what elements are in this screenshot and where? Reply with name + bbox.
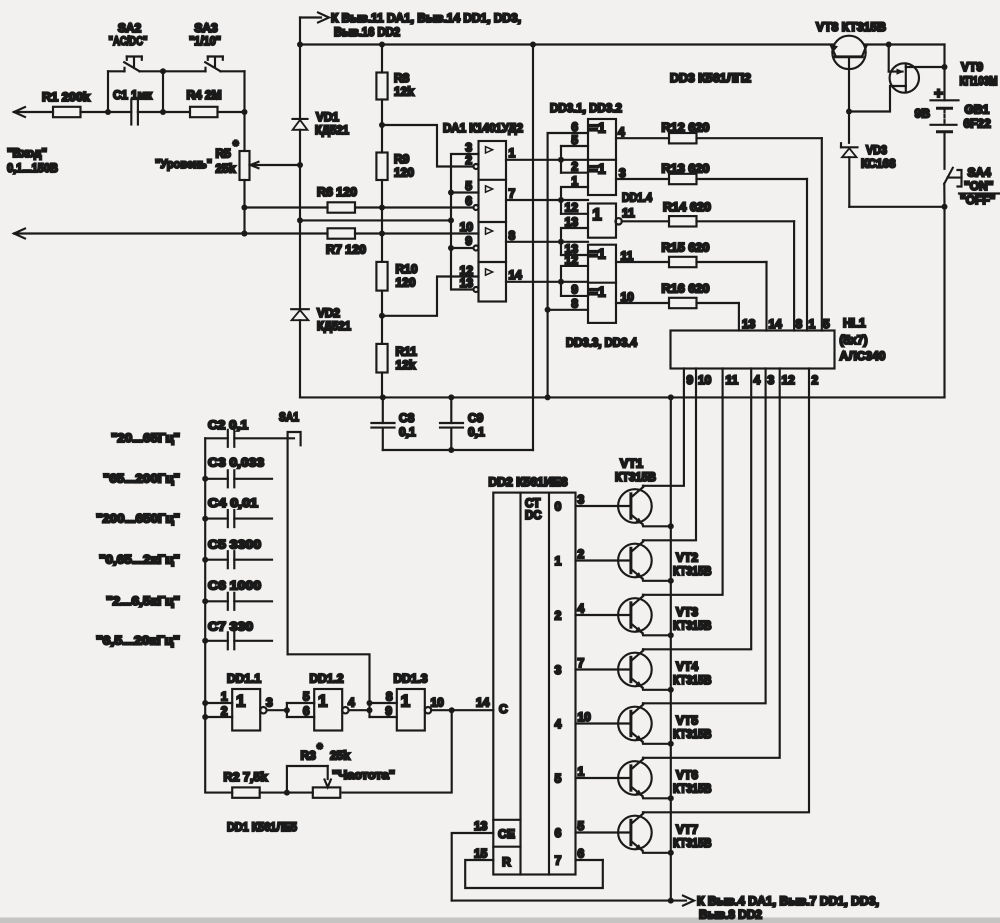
svg-text:C4 0,01: C4 0,01 xyxy=(208,496,258,510)
svg-text:R1 200k: R1 200k xyxy=(42,90,90,104)
svg-text:0: 0 xyxy=(555,500,562,514)
svg-text:R5: R5 xyxy=(216,147,232,161)
DD1.4 inputs 12 13 xyxy=(561,200,588,242)
svg-text:DD3.3, DD3.4: DD3.3, DD3.4 xyxy=(566,336,637,350)
svg-text:DD2 К561ИЕ8: DD2 К561ИЕ8 xyxy=(489,475,568,489)
wire R6 to DA1 pin6 xyxy=(355,205,473,211)
wire bottom ground rail xyxy=(452,900,672,902)
svg-text:"1/10": "1/10" xyxy=(189,34,221,48)
svg-text:0,1: 0,1 xyxy=(468,425,485,439)
svg-text:DC: DC xyxy=(525,510,542,522)
logic gate DD1.4 inverter xyxy=(588,191,652,238)
svg-text:VT9: VT9 xyxy=(961,60,983,74)
wire top left riser xyxy=(299,18,301,119)
DD1.1 output 3 wire xyxy=(266,696,290,714)
svg-text:C: C xyxy=(499,702,508,716)
transistor VT4 КТ315В xyxy=(576,649,712,693)
svg-text:1: 1 xyxy=(401,692,410,711)
wire emitter rail to ground xyxy=(668,397,674,903)
wire R8 R9 node xyxy=(379,100,385,153)
svg-text:0,1: 0,1 xyxy=(399,425,416,439)
transistor VT8 КТ315В xyxy=(816,20,886,112)
svg-text:13: 13 xyxy=(742,317,756,331)
resistor R15 xyxy=(616,241,767,331)
svg-text:6: 6 xyxy=(465,194,472,208)
wire bus to R2 xyxy=(205,717,232,793)
svg-text:10: 10 xyxy=(460,220,474,234)
svg-text:КД521: КД521 xyxy=(315,123,349,137)
svg-text:25k: 25k xyxy=(216,162,236,176)
svg-text:5: 5 xyxy=(571,133,578,147)
node frequency label 1 xyxy=(111,431,180,445)
wire HL1 pin column to VT5 collector xyxy=(643,369,766,704)
DD1.2 output 4 wire xyxy=(348,696,373,714)
svg-text:3: 3 xyxy=(619,166,626,180)
svg-text:4: 4 xyxy=(618,125,625,139)
svg-text:"20...65Гц": "20...65Гц" xyxy=(111,431,180,445)
svg-text:6: 6 xyxy=(571,120,578,134)
svg-text:C6 1000: C6 1000 xyxy=(208,579,261,593)
wire HL1 pin column to VT4 collector xyxy=(643,369,751,650)
svg-text:C5 3300: C5 3300 xyxy=(208,538,261,552)
svg-text:(5x7): (5x7) xyxy=(840,333,868,347)
wire R9 to R6 line xyxy=(381,180,383,208)
switch SA1 xyxy=(279,410,301,654)
svg-text:5: 5 xyxy=(823,317,830,331)
svg-text:"Частота": "Частота" xyxy=(332,768,395,782)
switch SA3 xyxy=(163,21,245,112)
DD3.3 output 11 xyxy=(621,249,634,263)
svg-text:C1 1мк: C1 1мк xyxy=(113,88,153,102)
svg-text:3: 3 xyxy=(768,373,775,387)
svg-text:12: 12 xyxy=(782,373,796,387)
svg-text:КТ315В: КТ315В xyxy=(673,564,712,578)
switch SA2 xyxy=(108,21,166,112)
resistor R8 xyxy=(376,45,414,100)
svg-text:13: 13 xyxy=(474,819,488,833)
svg-text:КД521: КД521 xyxy=(317,319,351,333)
svg-text:GB1: GB1 xyxy=(965,103,990,117)
svg-text:9: 9 xyxy=(465,234,472,248)
DD3.4 inputs 9 8 xyxy=(548,282,588,311)
resistor R4 xyxy=(187,88,222,117)
svg-text:5: 5 xyxy=(555,772,562,786)
svg-text:2: 2 xyxy=(812,373,819,387)
svg-text:"OFF": "OFF" xyxy=(960,193,995,207)
wire R7 to DA1 pin10 xyxy=(355,231,479,237)
svg-text:R13 620: R13 620 xyxy=(662,162,710,176)
node К Выв.4 arrow xyxy=(672,894,879,922)
svg-text:*: * xyxy=(233,137,239,153)
svg-text:C3 0,033: C3 0,033 xyxy=(208,456,264,470)
svg-text:10: 10 xyxy=(578,710,592,724)
transistor VT5 КТ315В xyxy=(576,703,712,747)
svg-text:"Вход": "Вход" xyxy=(7,146,47,160)
wire right rail from bus xyxy=(942,45,948,101)
svg-text:2: 2 xyxy=(571,160,578,174)
wire right rail to frame xyxy=(943,207,945,398)
resistor R6 xyxy=(317,185,357,213)
svg-text:3: 3 xyxy=(555,663,562,677)
svg-text:10: 10 xyxy=(621,290,635,304)
wire mid frame rail xyxy=(300,394,945,400)
transistor VT1 КТ315В xyxy=(576,457,674,530)
display HL1 АЛС340 xyxy=(671,316,886,369)
wire C1 to node xyxy=(138,109,190,115)
wire HL1 pin column to VT6 collector xyxy=(643,369,780,758)
DD2 output pin numbers 3 2 4 7 10 1 5 6 xyxy=(578,493,592,861)
svg-text:R6 120: R6 120 xyxy=(317,185,357,199)
wire VD2 riser xyxy=(299,220,301,309)
wire DA1 out7 xyxy=(506,197,588,203)
DD2 CE pin 13 wire to ground rail xyxy=(452,819,494,901)
DD3.3 inputs 13 12 xyxy=(561,242,588,282)
wire R2 to R3 xyxy=(260,790,313,796)
DD2 C input label xyxy=(499,702,508,716)
svg-text:7: 7 xyxy=(509,187,516,201)
svg-text:"0,65...2кГц": "0,65...2кГц" xyxy=(99,553,180,567)
battery GB1 6F22 xyxy=(915,85,992,132)
svg-text:2: 2 xyxy=(221,704,228,718)
capacitor C7 xyxy=(205,620,272,650)
transistor VT3 КТ315В xyxy=(576,595,712,639)
svg-text:DD1.3: DD1.3 xyxy=(394,672,428,686)
resistor R2 xyxy=(224,770,268,798)
svg-text:10: 10 xyxy=(698,373,712,387)
wire R3 to DD1.3 output xyxy=(343,710,452,792)
svg-text:8: 8 xyxy=(509,229,516,243)
svg-text:=1: =1 xyxy=(590,120,606,136)
svg-text:HL1: HL1 xyxy=(843,316,866,330)
logic gate DD1.3 inverter xyxy=(394,672,432,731)
DA1 output pin labels xyxy=(509,146,523,282)
DD2 C input wire pin 14 xyxy=(452,696,494,711)
wire capacitor bank bus xyxy=(202,438,208,720)
wire divider to DA1 pin2 xyxy=(382,125,473,167)
DD3.1 output 4 / resistor R12 xyxy=(618,125,625,139)
svg-text:"AC/DC": "AC/DC" xyxy=(109,34,148,48)
svg-text:DD1.2: DD1.2 xyxy=(310,672,344,686)
svg-text:5: 5 xyxy=(578,819,585,833)
resistor R7 xyxy=(326,228,366,256)
svg-text:R9: R9 xyxy=(394,152,410,166)
node frequency label 2 xyxy=(103,472,180,486)
wire VD3 to SA4 node xyxy=(849,204,947,210)
HL1 top pin labels 13 14 8 1 5 xyxy=(742,317,830,331)
DA1 pin number labels left xyxy=(460,141,474,291)
DD3.2 output 3 / resistor R13 xyxy=(619,166,626,180)
svg-text:R8: R8 xyxy=(394,71,410,85)
svg-text:КП103М: КП103М xyxy=(960,74,998,88)
svg-text:C7 330: C7 330 xyxy=(208,620,253,634)
capacitor C5 xyxy=(205,538,272,569)
svg-text:"2...6,5кГц": "2...6,5кГц" xyxy=(106,594,180,608)
svg-text:DD3.1, DD3.2: DD3.1, DD3.2 xyxy=(550,101,622,115)
svg-text:КТ315В: КТ315В xyxy=(673,619,712,633)
diode VD2 xyxy=(291,306,351,397)
svg-text:11: 11 xyxy=(622,206,635,220)
wire HL1 pin column to VT2 collector xyxy=(643,369,696,541)
svg-text:1: 1 xyxy=(809,317,816,331)
svg-text:SA4: SA4 xyxy=(968,166,992,180)
HL1 bottom pin labels 9 10 11 4 3 12 2 xyxy=(687,373,819,387)
wire DD3 common rail xyxy=(545,133,588,400)
svg-text:R10: R10 xyxy=(396,262,418,276)
DD2 R pin 15 label xyxy=(474,847,488,861)
capacitor C9 xyxy=(440,397,485,453)
node Вход label xyxy=(7,146,58,175)
DD2 output wires to bases xyxy=(576,859,603,861)
resistor R11 xyxy=(376,316,417,398)
node input arrow top xyxy=(14,107,53,117)
svg-text:6: 6 xyxy=(555,826,562,840)
diode VD1 xyxy=(293,110,350,165)
svg-text:9: 9 xyxy=(687,373,694,387)
wire DA1 out14 xyxy=(506,279,588,285)
svg-text:VT1: VT1 xyxy=(620,457,643,471)
svg-text:DD1 К561ЛЕ5: DD1 К561ЛЕ5 xyxy=(227,820,297,834)
wire top supply bus xyxy=(297,42,834,48)
wire R10 to pin12 xyxy=(379,277,479,319)
svg-text:6: 6 xyxy=(578,847,585,861)
svg-text:*: * xyxy=(317,740,323,756)
wire R6 sense line xyxy=(244,206,327,208)
counter DD2 К561ИЕ8 xyxy=(489,475,576,875)
potentiometer R5 xyxy=(155,112,300,237)
svg-text:VT3: VT3 xyxy=(676,605,698,619)
node input arrow bottom xyxy=(14,229,328,239)
svg-text:1: 1 xyxy=(318,692,327,711)
svg-text:6F22: 6F22 xyxy=(964,117,992,131)
node frequency label 4 xyxy=(99,553,180,567)
wire R6R7 link xyxy=(381,208,383,234)
svg-text:4: 4 xyxy=(578,602,585,616)
svg-text:2: 2 xyxy=(555,609,562,623)
svg-text:4: 4 xyxy=(754,373,761,387)
svg-text:=1: =1 xyxy=(590,161,606,177)
wire R1 to C1 node xyxy=(81,109,132,115)
wire HL1 pin column to VT7 collector xyxy=(643,369,809,813)
node frequency label 6 xyxy=(96,634,180,648)
svg-text:6: 6 xyxy=(303,704,310,718)
transistor VT2 КТ315В xyxy=(576,540,712,584)
svg-text:1: 1 xyxy=(221,690,228,704)
resistor R16 xyxy=(616,282,739,331)
DD1.3 output 10 wire xyxy=(431,696,455,714)
svg-text:15: 15 xyxy=(474,847,488,861)
svg-text:5: 5 xyxy=(303,690,310,704)
svg-text:Выв.8 DD2: Выв.8 DD2 xyxy=(699,908,762,922)
svg-text:КС168: КС168 xyxy=(861,157,896,171)
transistor VT9 КП103М xyxy=(849,45,998,112)
capacitor C6 xyxy=(205,579,272,610)
svg-text:VT8 КТ315В: VT8 КТ315В xyxy=(816,20,886,34)
resistor R1 xyxy=(42,90,90,117)
transistor VT6 КТ315В xyxy=(576,758,712,802)
capacitor C8 xyxy=(371,397,416,450)
DD2 R box xyxy=(502,855,511,869)
resistor R10 xyxy=(376,234,417,291)
svg-text:5: 5 xyxy=(465,179,472,193)
svg-text:1: 1 xyxy=(592,205,601,224)
svg-text:R: R xyxy=(502,855,511,869)
wire DA1 out1 xyxy=(506,157,588,163)
potentiometer R3 Частота xyxy=(287,740,395,798)
DD3.4 output 10 xyxy=(621,290,635,304)
svg-text:DD1.1: DD1.1 xyxy=(227,672,261,686)
switch SA4 ON OFF xyxy=(944,132,999,207)
svg-text:120: 120 xyxy=(394,166,414,180)
DD3.2 inputs 2 1 xyxy=(561,160,588,201)
svg-text:К Выв.11 DA1, Выв.14 DD1, DD3,: К Выв.11 DA1, Выв.14 DD1, DD3, xyxy=(331,11,521,25)
wire R5 wiper node xyxy=(297,162,303,220)
svg-text:4: 4 xyxy=(555,717,562,731)
svg-text:11: 11 xyxy=(621,249,634,263)
svg-text:11: 11 xyxy=(726,373,739,387)
svg-text:1: 1 xyxy=(555,554,562,568)
svg-text:13: 13 xyxy=(460,276,474,290)
svg-text:4: 4 xyxy=(348,696,355,710)
logic gate DD1.2 inverter xyxy=(310,672,349,731)
svg-text:CE: CE xyxy=(498,827,515,841)
wire bus VT8 to VT9 node xyxy=(865,42,945,48)
svg-text:8: 8 xyxy=(571,297,578,311)
svg-text:3: 3 xyxy=(266,696,273,710)
svg-text:0,1...150В: 0,1...150В xyxy=(7,161,58,175)
svg-text:1: 1 xyxy=(509,146,516,160)
svg-text:R12 620: R12 620 xyxy=(662,121,710,135)
svg-text:DA1 К1401УД2: DA1 К1401УД2 xyxy=(443,121,523,135)
svg-text:1: 1 xyxy=(571,174,578,188)
svg-text:VT7: VT7 xyxy=(676,823,698,837)
op-amp DA1 К1401УД2 xyxy=(443,121,523,302)
svg-text:VD2: VD2 xyxy=(317,306,340,320)
svg-text:R16 620: R16 620 xyxy=(662,282,710,296)
svg-text:К Выв.4 DA1, Выв.7 DD1, DD3,: К Выв.4 DA1, Выв.7 DD1, DD3, xyxy=(697,894,879,908)
label DD1 К561ЛЕ5 xyxy=(227,820,297,834)
svg-text:14: 14 xyxy=(509,268,523,282)
svg-text:АЛС340: АЛС340 xyxy=(840,349,886,363)
DD1.4 output 11 xyxy=(622,206,635,220)
wire mid reference line xyxy=(297,217,454,223)
svg-text:VT2: VT2 xyxy=(676,551,698,565)
wire out7 to R reset loop xyxy=(465,860,603,888)
scan edge band bottom xyxy=(0,918,1000,923)
wire HL1 pin column to VT3 collector xyxy=(643,369,723,595)
svg-text:7: 7 xyxy=(578,656,585,670)
node frequency label 5 xyxy=(106,594,180,608)
svg-text:120: 120 xyxy=(396,276,416,290)
svg-text:"6,5...20кГц": "6,5...20кГц" xyxy=(96,634,180,648)
svg-text:VD1: VD1 xyxy=(316,110,339,124)
svg-text:14: 14 xyxy=(476,696,490,710)
node frequency label 3 xyxy=(96,511,180,525)
svg-text:C2 0,1: C2 0,1 xyxy=(208,418,248,432)
svg-text:C8: C8 xyxy=(399,411,415,425)
logic gate DD3.3 DD3.4 XOR pair xyxy=(566,245,637,350)
logic gate DD3.1 DD3.2 XOR pair xyxy=(550,101,622,195)
DD2 output digits 0-7 xyxy=(555,500,562,868)
svg-text:9В: 9В xyxy=(915,107,931,121)
svg-text:КТ315В: КТ315В xyxy=(673,727,712,741)
resistor R13 xyxy=(616,162,807,331)
svg-text:12: 12 xyxy=(565,253,579,267)
wire C8 C9 bottom return xyxy=(383,449,533,451)
svg-text:3: 3 xyxy=(578,493,585,507)
svg-text:2: 2 xyxy=(465,153,472,167)
transistor VT7 КТ315В xyxy=(576,812,712,856)
svg-text:SA3: SA3 xyxy=(194,21,218,35)
svg-text:8: 8 xyxy=(796,317,803,331)
DD1.1 input wires pins 1 2 xyxy=(205,690,232,719)
svg-text:12k: 12k xyxy=(396,358,416,372)
svg-text:VT5: VT5 xyxy=(676,714,698,728)
svg-text:"65...200Гц": "65...200Гц" xyxy=(103,472,180,486)
svg-text:13: 13 xyxy=(565,215,579,229)
wire SA1 to DD1.3 input xyxy=(288,654,370,703)
svg-text:R2 7,5k: R2 7,5k xyxy=(224,770,268,784)
svg-text:"Уровень": "Уровень" xyxy=(155,157,212,171)
wire HL1 pin column to VT1 collector xyxy=(643,369,684,486)
logic gate DD1.1 inverter xyxy=(227,672,267,731)
svg-text:R4 2M: R4 2M xyxy=(187,88,222,102)
zener diode VD3 КС168 xyxy=(841,143,896,207)
DA1 non-inverting bracket pins 3 5 9 13 xyxy=(448,154,479,290)
resistor R12 xyxy=(616,121,822,331)
svg-text:КТ315В: КТ315В xyxy=(673,673,712,687)
svg-text:Выв.16 DD2: Выв.16 DD2 xyxy=(334,25,400,39)
svg-text:C9: C9 xyxy=(468,411,484,425)
svg-text:"200...650Гц": "200...650Гц" xyxy=(96,511,180,525)
svg-text:VD3: VD3 xyxy=(866,143,887,157)
label DD3 К561ЛП2 xyxy=(670,71,751,85)
capacitor C2 xyxy=(205,418,294,447)
svg-text:2: 2 xyxy=(578,547,585,561)
svg-text:SA1: SA1 xyxy=(279,410,299,424)
svg-text:R7 120: R7 120 xyxy=(326,243,366,257)
wire DA1 out8 xyxy=(506,239,588,245)
svg-text:1: 1 xyxy=(236,692,245,711)
wire bus drop rail xyxy=(532,45,534,451)
capacitor C4 xyxy=(205,496,272,527)
wire R4 to node xyxy=(218,109,248,115)
svg-text:DD3 К561ЛП2: DD3 К561ЛП2 xyxy=(670,71,751,85)
node К Выв.11 arrow xyxy=(300,11,521,39)
resistor R9 xyxy=(376,152,414,180)
svg-text:12: 12 xyxy=(565,201,579,215)
svg-text:8: 8 xyxy=(386,690,393,704)
svg-text:14: 14 xyxy=(769,317,783,331)
DD1.2 input bracket pins 5 6 xyxy=(287,690,314,719)
svg-text:9: 9 xyxy=(385,704,392,718)
svg-text:R3: R3 xyxy=(301,749,317,763)
svg-text:7: 7 xyxy=(555,854,562,868)
svg-text:"ON": "ON" xyxy=(964,179,993,193)
svg-text:КТ315В: КТ315В xyxy=(673,836,712,850)
svg-text:12k: 12k xyxy=(394,85,414,99)
svg-text:SA2: SA2 xyxy=(118,21,142,35)
DD1.3 input bracket pins 8 9 xyxy=(370,690,397,719)
resistor R14 xyxy=(622,200,794,331)
svg-text:R14 620: R14 620 xyxy=(663,200,711,214)
DD3.1 inputs 6 5 xyxy=(561,120,588,160)
wire VT8 base node xyxy=(846,109,852,143)
DD2 CE box xyxy=(493,820,520,847)
svg-text:R15 620: R15 620 xyxy=(662,241,710,255)
svg-text:DD1.4: DD1.4 xyxy=(622,191,652,205)
svg-text:+: + xyxy=(934,85,943,102)
svg-text:КТ315В: КТ315В xyxy=(615,470,656,484)
